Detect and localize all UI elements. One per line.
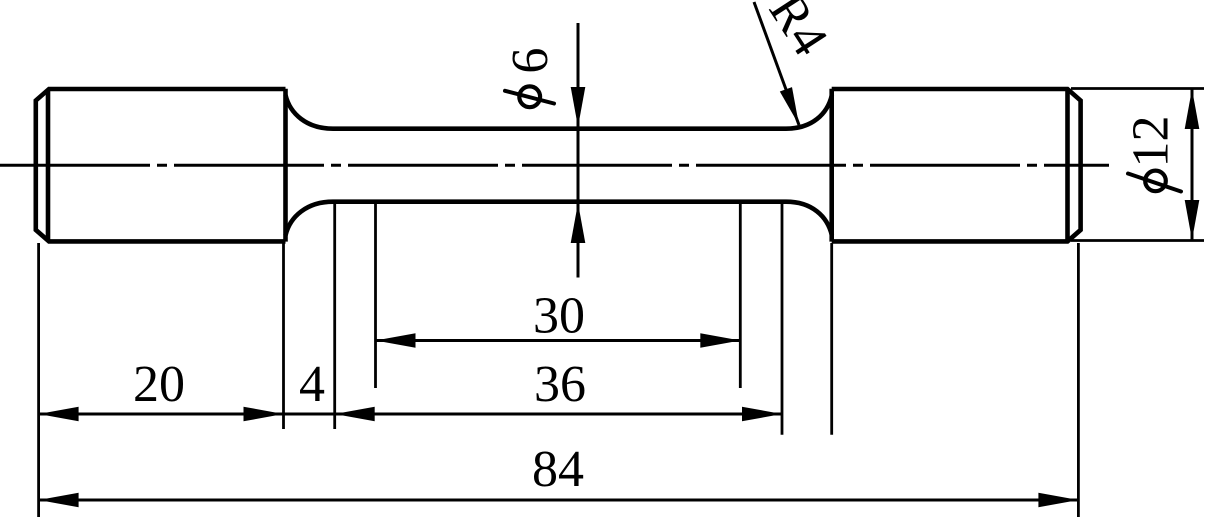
svg-text:20: 20 xyxy=(133,356,185,413)
svg-text:36: 36 xyxy=(534,356,586,413)
svg-text:6: 6 xyxy=(502,48,559,74)
svg-text:84: 84 xyxy=(532,441,584,498)
svg-text:30: 30 xyxy=(533,288,585,345)
svg-text:4: 4 xyxy=(299,356,325,413)
svg-text:12: 12 xyxy=(1123,116,1180,168)
